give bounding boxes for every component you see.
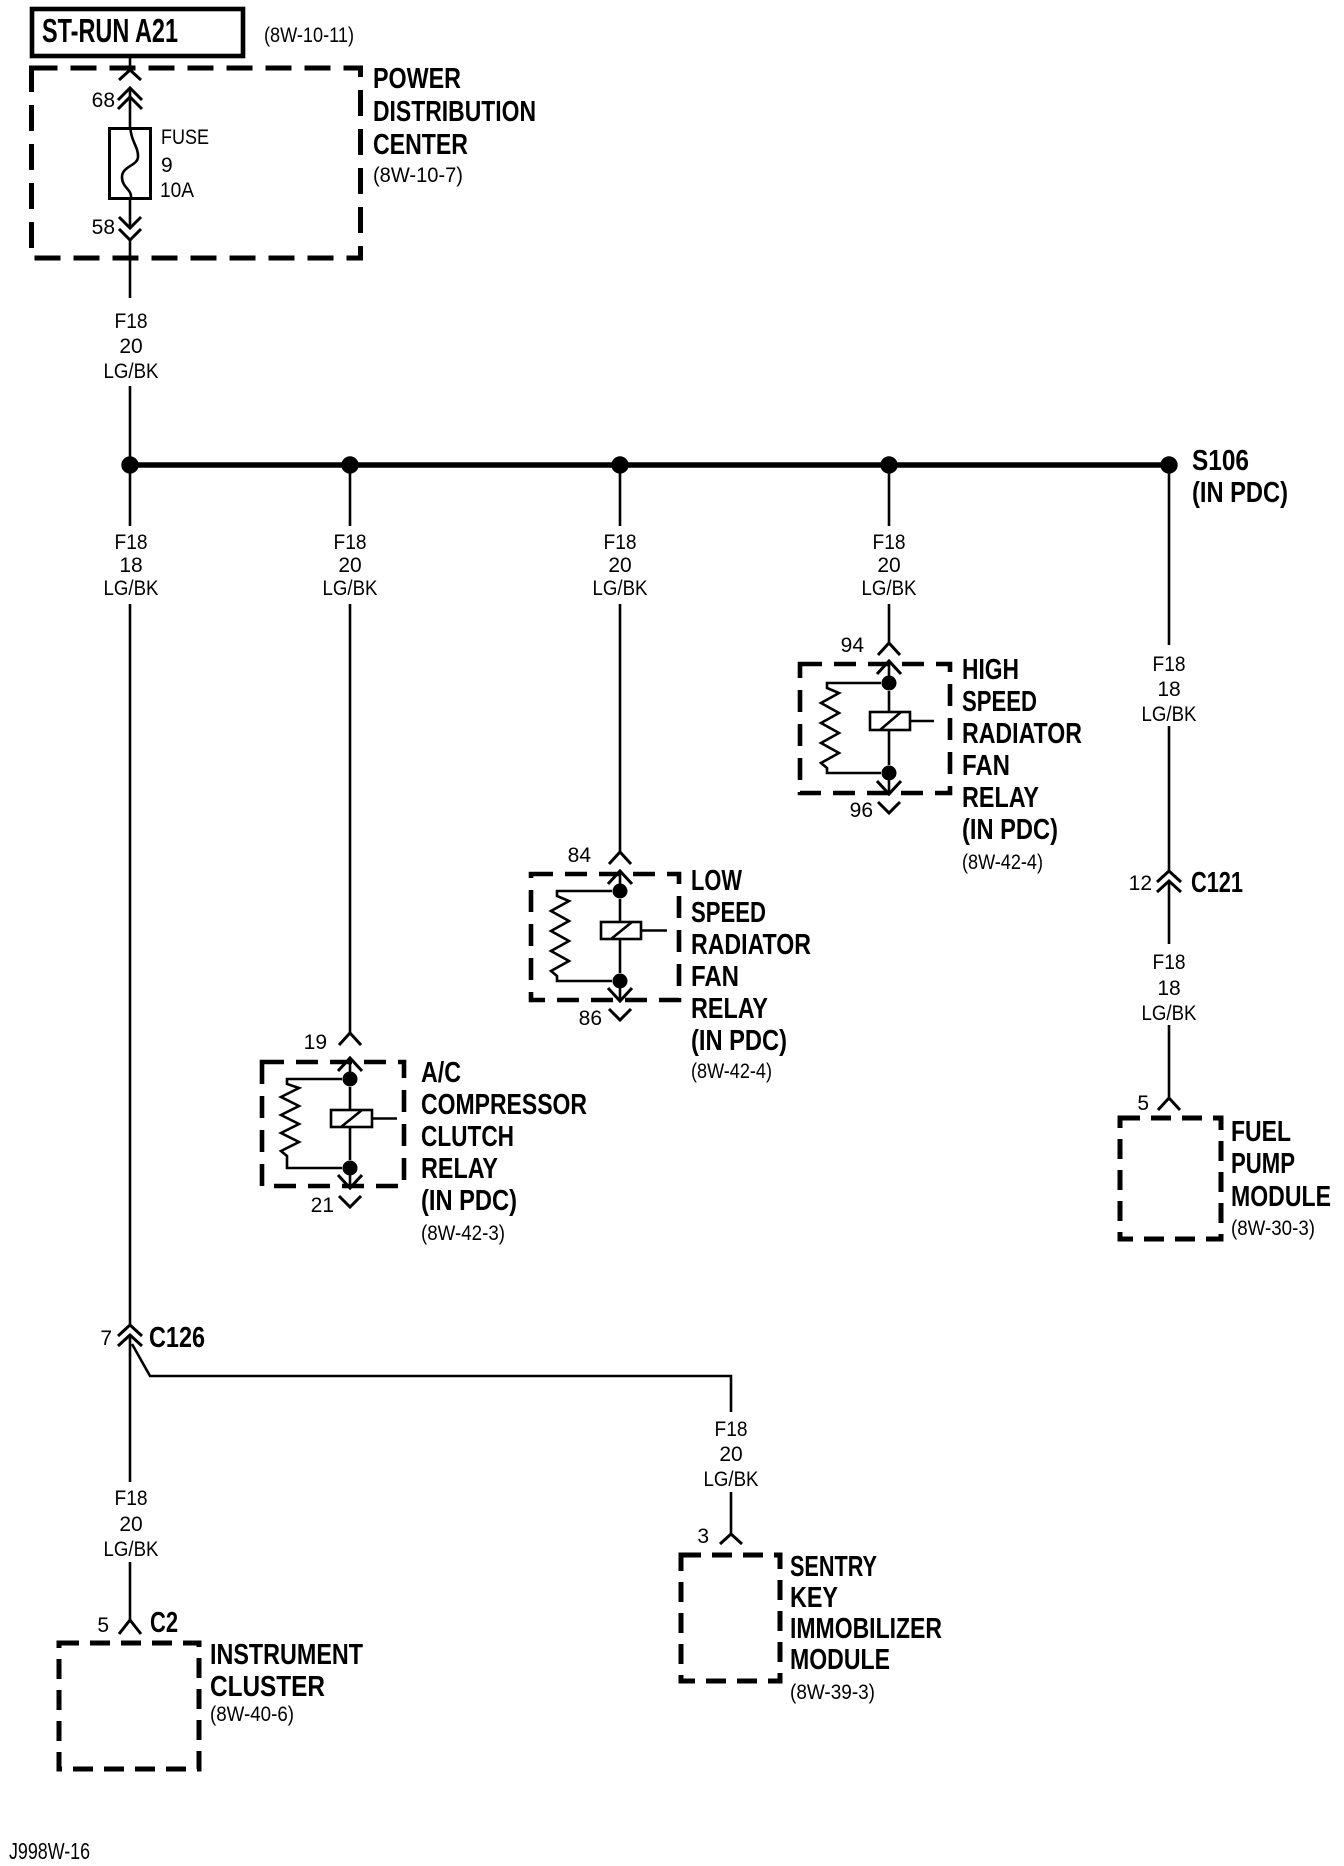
splice bus S106 [130,462,1169,468]
svg-text:F18: F18 [1153,653,1186,676]
svg-text:20: 20 [719,1443,742,1466]
pin 94 connector (fork + chevron) [878,643,900,655]
pin 19 connector (fork + chevron) [339,1033,361,1045]
svg-text:5: 5 [97,1614,109,1637]
svg-text:20: 20 [338,554,361,577]
svg-text:MODULE: MODULE [1231,1181,1331,1213]
node relay top junction [882,676,897,691]
svg-text:20: 20 [119,1513,142,1536]
svg-text:J998W-16: J998W-16 [9,1838,90,1864]
svg-text:7: 7 [100,1327,112,1350]
svg-text:F18: F18 [115,531,148,554]
resistor (relay suppression) [821,683,881,773]
wire from pin 68 to fuse [129,88,132,129]
relay K3 high speed radiator fan relay dashed box [800,664,950,793]
pin 3 connector sentry key (fork) [720,1534,742,1544]
pin 96 connector (chevron + fork) [888,773,891,794]
junction dot 3 [611,456,628,473]
pin 5 connector C2 instrument cluster (fork) [119,1620,141,1634]
instrument cluster dashed box [59,1643,199,1769]
svg-text:FUSE: FUSE [161,126,209,149]
svg-text:(8W-42-3): (8W-42-3) [421,1222,505,1245]
relay coil K3 [888,691,891,712]
svg-text:18: 18 [1157,678,1180,701]
wire from fuse to connector 58 [129,198,132,228]
junction dot 4 [880,456,897,473]
svg-text:LG/BK: LG/BK [704,1468,759,1491]
svg-text:F18: F18 [334,531,367,554]
pin 84 connector (fork + chevron) [609,852,631,864]
node relay top junction [613,884,628,899]
svg-text:F18: F18 [604,531,637,554]
svg-text:12: 12 [1129,872,1152,895]
branch wire C126 to sentry key module [132,1344,731,1534]
node ST-RUN A21 feed box [32,9,243,56]
svg-text:FAN: FAN [691,961,739,993]
svg-text:RELAY: RELAY [421,1153,498,1185]
wire C126 to instrument cluster [129,1335,132,1620]
svg-text:FAN: FAN [962,750,1010,782]
sentry key immobilizer module dashed box [681,1555,780,1681]
svg-text:(8W-39-3): (8W-39-3) [790,1681,875,1704]
svg-text:68: 68 [92,89,115,112]
svg-text:21: 21 [311,1194,334,1217]
svg-text:F18: F18 [1153,951,1186,974]
svg-text:KEY: KEY [790,1582,838,1614]
svg-text:INSTRUMENT: INSTRUMENT [210,1639,363,1671]
svg-text:C121: C121 [1191,867,1243,899]
svg-text:86: 86 [579,1007,602,1030]
relay coil K2 [619,899,622,922]
svg-text:A/C: A/C [421,1057,461,1089]
svg-text:LG/BK: LG/BK [104,577,159,600]
svg-text:C2: C2 [150,1607,178,1639]
svg-text:SPEED: SPEED [962,686,1037,718]
svg-text:CLUTCH: CLUTCH [421,1121,514,1153]
svg-text:RELAY: RELAY [691,993,768,1025]
svg-text:ST-RUN A21: ST-RUN A21 [42,12,178,49]
svg-text:F18: F18 [115,1487,148,1510]
svg-text:MODULE: MODULE [790,1644,890,1676]
svg-text:(8W-42-4): (8W-42-4) [691,1060,772,1083]
svg-text:94: 94 [841,634,865,657]
svg-text:SPEED: SPEED [691,897,766,929]
wire drop 4 to high speed relay [888,465,891,643]
connector pin 68 (fork + double chevron) [119,70,141,80]
pin 86 connector (chevron + fork) [619,981,622,1001]
svg-text:IMMOBILIZER: IMMOBILIZER [790,1613,942,1645]
svg-text:96: 96 [850,799,873,822]
node relay top junction [343,1072,358,1087]
svg-text:(IN PDC): (IN PDC) [421,1185,517,1217]
svg-text:3: 3 [697,1525,709,1548]
svg-text:LG/BK: LG/BK [104,1538,159,1561]
wire drop 5 to C121 [1168,465,1171,871]
svg-text:9: 9 [161,154,173,177]
junction dot 1 [121,456,138,473]
svg-text:F18: F18 [873,531,906,554]
svg-text:10A: 10A [160,179,194,202]
resistor (relay suppression) [551,891,612,981]
svg-text:CENTER: CENTER [373,129,468,161]
relay K2 low speed radiator fan relay dashed box [531,874,679,1000]
connector C126 (double chevron) [118,1325,142,1336]
wire drop 3 to low speed relay [619,465,622,852]
node relay bottom junction [882,766,897,781]
wire C121 to fuel pump module [1168,881,1171,1098]
svg-text:20: 20 [119,335,142,358]
svg-text:(IN PDC): (IN PDC) [962,814,1058,846]
svg-text:C126: C126 [149,1322,205,1354]
svg-text:F18: F18 [715,1418,748,1441]
svg-text:DISTRIBUTION: DISTRIBUTION [373,96,536,128]
resistor (relay suppression) [281,1079,342,1168]
connector C121 (double chevron) [1157,871,1181,882]
svg-text:(8W-10-11): (8W-10-11) [264,24,354,47]
svg-text:(8W-30-3): (8W-30-3) [1231,1217,1315,1240]
pin 5 connector fuel pump (fork + chevron) [1158,1098,1180,1110]
svg-text:18: 18 [119,554,142,577]
relay coil K1 [349,1087,352,1110]
svg-text:CLUSTER: CLUSTER [210,1671,325,1703]
svg-text:RADIATOR: RADIATOR [691,929,811,961]
pin 21 connector (chevron + fork) [349,1168,352,1188]
svg-text:RADIATOR: RADIATOR [962,718,1082,750]
svg-text:(IN PDC): (IN PDC) [1192,477,1288,509]
svg-text:5: 5 [1137,1092,1149,1115]
svg-text:POWER: POWER [373,63,461,95]
node relay bottom junction [613,974,628,989]
svg-text:(8W-10-7): (8W-10-7) [373,164,463,187]
svg-text:20: 20 [608,554,631,577]
connector pin 58 (double chevron down + fork) [119,217,141,228]
wire drop 1 to C126 [129,465,132,1324]
svg-text:LG/BK: LG/BK [1142,703,1197,726]
svg-text:LG/BK: LG/BK [862,577,917,600]
svg-text:COMPRESSOR: COMPRESSOR [421,1089,587,1121]
svg-text:SENTRY: SENTRY [790,1551,877,1583]
svg-text:18: 18 [1157,977,1180,1000]
svg-text:(IN PDC): (IN PDC) [691,1025,787,1057]
svg-text:LOW: LOW [691,865,742,897]
fuel pump module dashed box [1120,1118,1221,1239]
svg-text:S106: S106 [1192,445,1249,477]
svg-text:LG/BK: LG/BK [593,577,648,600]
svg-text:(8W-40-6): (8W-40-6) [210,1703,294,1726]
svg-text:19: 19 [304,1031,327,1054]
svg-text:84: 84 [568,844,592,867]
power distribution center dashed box [32,68,361,258]
wire from ST-RUN box to connector 68 [129,56,132,70]
svg-text:58: 58 [92,216,115,239]
svg-text:PUMP: PUMP [1231,1148,1295,1180]
junction dot S106 [1160,456,1177,473]
wire F18 20 LG/BK from PDC down to splice bus [129,240,132,465]
wire drop 2 to A/C relay [349,465,352,1033]
svg-text:LG/BK: LG/BK [104,360,159,383]
svg-text:HIGH: HIGH [962,654,1019,686]
svg-text:FUEL: FUEL [1231,1116,1291,1148]
svg-text:F18: F18 [115,310,148,333]
node relay bottom junction [343,1161,358,1176]
svg-text:20: 20 [877,554,900,577]
svg-text:LG/BK: LG/BK [1142,1002,1197,1025]
svg-text:RELAY: RELAY [962,782,1039,814]
junction dot 2 [341,456,358,473]
fuse 9 10A [110,129,151,199]
svg-text:LG/BK: LG/BK [323,577,378,600]
relay K1 A/C compressor clutch relay dashed box [262,1062,404,1186]
svg-text:(8W-42-4): (8W-42-4) [962,851,1043,874]
